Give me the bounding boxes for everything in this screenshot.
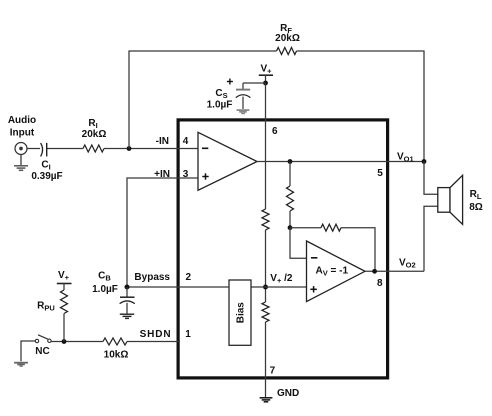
wire Bypass net: [127, 286, 229, 288]
svg-text:10kΩ: 10kΩ: [104, 349, 129, 360]
capacitor CI: [41, 143, 43, 157]
node SHDN junction: [62, 339, 67, 344]
resistor internal mid (to op-amp2 input): [289, 162, 291, 187]
ground GND bottom: [260, 398, 273, 402]
svg-text:1.0µF: 1.0µF: [207, 100, 233, 111]
node V+/2 junction: [263, 285, 268, 290]
wire divider mid: [265, 230, 267, 302]
svg-text:GND: GND: [277, 388, 299, 399]
svg-text:-IN: -IN: [156, 136, 169, 147]
wire pin7 to GND: [265, 322, 267, 397]
wire feedback loop to RF: [129, 51, 424, 162]
capacitor CS: [236, 89, 250, 91]
node -IN junction: [127, 146, 132, 151]
svg-text:SHDN: SHDN: [140, 329, 172, 340]
resistor internal feedback of op-amp2: [290, 227, 321, 229]
resistor 10k SHDN: [103, 338, 127, 345]
wire op-amp2 output VO2: [365, 270, 424, 272]
node VO2 junction: [372, 269, 377, 274]
svg-text:8: 8: [377, 278, 383, 289]
wire switch to ground: [21, 341, 35, 361]
svg-text:Audio: Audio: [8, 115, 36, 126]
svg-text:5: 5: [377, 168, 383, 179]
resistor RI: [83, 145, 104, 152]
resistor RPU: [61, 290, 68, 314]
ground at audio input: [14, 166, 28, 171]
svg-text:AV = -1: AV = -1: [316, 266, 349, 278]
wire op-amp1 output to VO1: [257, 161, 424, 163]
node feedback junction: [288, 225, 293, 230]
svg-text:Bypass: Bypass: [134, 272, 170, 283]
wire non-inverting input op-amp2: [251, 286, 307, 288]
ground at switch: [14, 362, 28, 367]
speaker RL: [438, 188, 450, 213]
wire +IN net: [127, 178, 198, 287]
svg-text:2: 2: [186, 272, 192, 283]
capacitor CB: [126, 287, 128, 297]
node output1 junction: [288, 159, 293, 164]
node CB junction: [125, 285, 130, 290]
resistor internal lower divider: [262, 302, 269, 322]
wire VO2 to speaker: [424, 206, 438, 271]
wire VO1 to speaker: [424, 162, 438, 195]
wire input net (-IN): [28, 148, 199, 150]
wire pin6 V+ rail down: [265, 83, 267, 209]
ground at CB: [120, 314, 134, 318]
svg-text:Bias: Bias: [236, 302, 247, 324]
svg-text:0.39µF: 0.39µF: [31, 171, 62, 182]
IC U1 outline: [178, 120, 388, 378]
resistor RF: [277, 48, 297, 55]
wire inverting input op-amp2: [290, 228, 307, 258]
resistor internal upper divider: [262, 209, 269, 230]
svg-text:4: 4: [183, 136, 189, 147]
node V+ junction: [263, 81, 268, 86]
op-amp U1B: [307, 241, 366, 302]
svg-text:7: 7: [270, 366, 276, 377]
svg-text:NC: NC: [35, 346, 49, 357]
svg-text:6: 6: [272, 126, 278, 137]
ground at CS: [237, 109, 250, 114]
Bias block: [229, 280, 251, 345]
op-amp U1A: [198, 132, 257, 190]
svg-text:Input: Input: [10, 127, 35, 138]
CS plus polarity: [227, 79, 233, 85]
svg-text:20kΩ: 20kΩ: [275, 33, 300, 44]
svg-text:20kΩ: 20kΩ: [82, 129, 107, 140]
svg-text:8Ω: 8Ω: [469, 202, 483, 213]
switch SW1: [35, 339, 38, 342]
svg-text:1: 1: [185, 329, 191, 340]
wire SHDN net: [51, 341, 103, 343]
svg-text:V+ /2: V+ /2: [270, 273, 293, 285]
svg-text:1.0µF: 1.0µF: [92, 284, 118, 295]
audio input connector J1: [15, 143, 27, 166]
node VO1 junction: [422, 159, 427, 164]
wire V+ to CS: [243, 82, 266, 84]
